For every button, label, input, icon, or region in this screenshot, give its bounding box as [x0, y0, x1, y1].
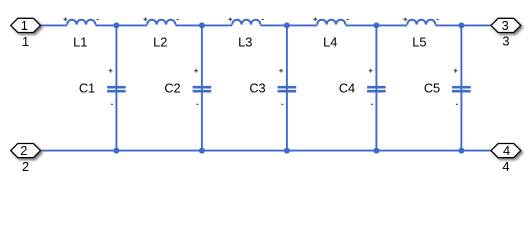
pin label - of L4 — [347, 19, 349, 21]
inductor L5 coil winding — [407, 20, 435, 25]
svg-text:C3: C3 — [249, 81, 265, 96]
wire top rail segment node C5 to port 3 — [435, 24, 490, 26]
port 4 name label — [502, 159, 509, 174]
inductor L3 — [228, 17, 263, 49]
wire capacitor C2 branch — [201, 25, 203, 150]
svg-text:2: 2 — [22, 159, 29, 174]
node junction at top of C4 — [373, 22, 379, 28]
capacitor C1 — [79, 25, 126, 150]
port 2 hexagon symbol — [11, 144, 41, 158]
capacitor C5 bottom plate — [452, 90, 471, 93]
wire top rail segment node C4 to L5 — [345, 24, 407, 26]
wire capacitor C3 branch — [286, 25, 288, 150]
inductor L1 — [63, 17, 98, 49]
pin label + of L3 — [228, 17, 232, 21]
pin label - of C5 — [456, 103, 458, 105]
port 2 connector — [11, 143, 41, 158]
capacitor C4 bottom plate — [367, 90, 386, 93]
wire top rail segment port 1 to L1 — [40, 24, 67, 26]
pin label + of C2 — [194, 69, 198, 73]
inductor L4 coil winding — [317, 20, 345, 25]
pin label - of L2 — [177, 19, 179, 21]
pin label + of C1 — [109, 69, 113, 73]
capacitor C5 — [424, 25, 471, 150]
pin label + of L1 — [63, 17, 67, 21]
svg-text:L2: L2 — [153, 35, 167, 50]
svg-text:C1: C1 — [79, 81, 95, 96]
svg-text:4: 4 — [503, 143, 510, 158]
port 4 connector — [491, 143, 521, 158]
pin label - of L1 — [97, 19, 99, 21]
svg-text:C5: C5 — [424, 81, 440, 96]
node junction at top of C2 — [199, 22, 205, 28]
port 3 connector — [491, 18, 521, 33]
node junction at top of C1 — [113, 22, 119, 28]
capacitor C2 — [164, 25, 211, 150]
capacitor C1 top plate — [107, 86, 126, 89]
pin label + of L4 — [313, 17, 317, 21]
inductor L4 — [313, 17, 348, 49]
pin label - of C3 — [281, 103, 283, 105]
inductor L2 coil winding — [147, 20, 175, 25]
capacitor C3 bottom plate — [278, 90, 297, 93]
wire capacitor C5 branch — [460, 25, 462, 150]
node junction at bottom of C5 — [458, 148, 464, 154]
svg-text:3: 3 — [502, 34, 509, 49]
node junction at bottom of C3 — [284, 148, 290, 154]
node junction at top of C5 — [458, 22, 464, 28]
port 1 name label — [22, 34, 29, 49]
inductor L3 coil winding — [232, 20, 260, 25]
port 1 connector — [11, 18, 41, 33]
port 4 hexagon symbol — [491, 144, 521, 158]
node junction at top of C3 — [284, 22, 290, 28]
pin label - of L3 — [262, 19, 264, 21]
pin label - of C2 — [196, 103, 198, 105]
pin label - of L5 — [437, 19, 439, 21]
wire capacitor C4 branch — [375, 25, 377, 150]
capacitor C2 top plate — [193, 86, 212, 89]
pin label - of C4 — [371, 103, 373, 105]
capacitor C4 top plate — [367, 86, 386, 89]
svg-text:1: 1 — [21, 18, 28, 33]
capacitor C3 top plate — [278, 86, 297, 89]
pin label + of L5 — [403, 17, 407, 21]
svg-text:4: 4 — [502, 159, 509, 174]
pin label + of L2 — [143, 17, 147, 21]
port 3 name label — [502, 34, 509, 49]
svg-text:C4: C4 — [339, 81, 355, 96]
svg-text:2: 2 — [20, 143, 27, 158]
inductor L2 — [143, 17, 178, 49]
svg-text:1: 1 — [22, 34, 29, 49]
svg-text:L3: L3 — [238, 35, 252, 50]
wire top rail segment node C3 to L4 — [260, 24, 317, 26]
wire bottom rail port 2 to port 4 — [41, 150, 491, 152]
pin label + of C3 — [279, 69, 283, 73]
node junction at bottom of C2 — [199, 148, 205, 154]
capacitor C5 top plate — [452, 86, 471, 89]
capacitor C2 bottom plate — [193, 90, 212, 93]
svg-text:3: 3 — [502, 18, 509, 33]
capacitor C3 — [249, 25, 296, 150]
svg-text:L5: L5 — [412, 35, 426, 50]
port 1 hexagon symbol — [11, 18, 41, 32]
svg-text:L1: L1 — [73, 35, 87, 50]
capacitor C4 — [339, 25, 386, 150]
node junction at bottom of C4 — [373, 148, 379, 154]
inductor L5 — [403, 17, 438, 49]
svg-text:L4: L4 — [323, 35, 337, 50]
wire top rail segment node C1 to L2 — [95, 24, 147, 26]
pin label + of C4 — [369, 69, 373, 73]
node junction at bottom of C1 — [113, 148, 119, 154]
svg-text:C2: C2 — [164, 81, 180, 96]
pin label - of C1 — [111, 103, 113, 105]
port 3 hexagon symbol — [491, 18, 521, 32]
capacitor C1 bottom plate — [107, 90, 126, 93]
inductor L1 coil winding — [67, 20, 95, 25]
wire capacitor C1 branch — [115, 25, 117, 150]
pin label + of C5 — [454, 69, 458, 73]
port 2 name label — [22, 159, 29, 174]
wire top rail segment node C2 to L3 — [175, 24, 232, 26]
